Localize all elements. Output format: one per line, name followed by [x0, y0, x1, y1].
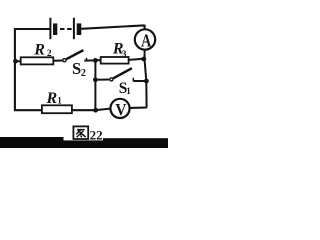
- battery cell 2 short thick plate: [77, 23, 82, 35]
- wire bottom-right horizontal to voltmeter: [130, 106, 147, 109]
- wire S2 fixed contact to center riser: [84, 59, 95, 61]
- svg-text:2: 2: [81, 68, 86, 79]
- svg-text:3: 3: [122, 49, 127, 59]
- redacted text band bottom-right: [103, 138, 168, 148]
- svg-text:R: R: [33, 41, 45, 58]
- svg-text:R: R: [46, 90, 58, 107]
- redacted text band bottom-center: [64, 140, 104, 148]
- ammeter A: [135, 29, 155, 51]
- node junction riser bottom / bottom row: [93, 108, 98, 113]
- wire voltmeter to riser bottom junction: [96, 109, 111, 111]
- svg-text:S: S: [72, 59, 81, 78]
- svg-text:1: 1: [126, 86, 131, 96]
- redacted text band bottom-left: [0, 137, 64, 148]
- wire R3 to right rail: [129, 59, 144, 60]
- svg-text:2: 2: [47, 49, 52, 59]
- switch S1 (open): [110, 68, 134, 81]
- node junction riser top (S2 row / R3 row): [93, 58, 98, 63]
- node junction left rail / R2 row: [13, 59, 18, 64]
- wire top-left horizontal to battery: [14, 28, 50, 30]
- svg-text:22: 22: [90, 128, 103, 143]
- wire R2 row from left rail: [16, 60, 21, 62]
- wire bottom row (R1 row): [15, 108, 96, 111]
- node junction right rail / R3 row: [141, 57, 146, 62]
- wire S1 fixed contact to right rail: [133, 80, 146, 82]
- svg-text:A: A: [141, 32, 152, 51]
- resistor R2: [21, 57, 54, 64]
- wire ammeter down right side to bottom-right corner: [145, 50, 147, 107]
- resistor R3: [101, 57, 129, 64]
- node junction right rail / S1 row: [144, 79, 149, 84]
- wire R2 to switch S2: [53, 60, 62, 62]
- caption 图 (drawn glyph): [73, 126, 88, 139]
- resistor R1: [42, 105, 72, 113]
- voltmeter V: [110, 99, 129, 119]
- node junction riser / S1 row: [93, 77, 98, 82]
- svg-text:V: V: [115, 101, 127, 119]
- battery cell 1 short thick plate: [53, 23, 57, 35]
- wire battery to ammeter corner: [81, 25, 144, 28]
- wire center riser vertical: [94, 60, 96, 110]
- wire left vertical (battery negative rail): [14, 29, 16, 111]
- wire riser to R3: [95, 59, 100, 61]
- wire riser to switch S1: [95, 79, 109, 81]
- battery dashed extension (more cells): [60, 28, 72, 30]
- svg-text:1: 1: [57, 96, 62, 106]
- battery cell 1 long plate: [49, 18, 51, 40]
- switch S2 (open): [63, 50, 87, 62]
- battery cell 2 long plate: [73, 18, 75, 40]
